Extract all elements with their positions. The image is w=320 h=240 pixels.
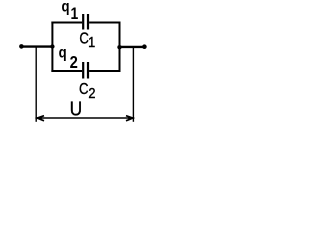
- extension line left: [35, 48, 37, 122]
- junction dot left: [50, 44, 54, 48]
- wire top branch left segment: [51, 22, 82, 24]
- wire right lead: [120, 46, 145, 48]
- capacitor C2: [83, 62, 88, 79]
- wire left vertical: [51, 22, 53, 73]
- svg-text:U: U: [70, 98, 83, 121]
- label q1: [62, 0, 79, 24]
- svg-text:1: 1: [71, 5, 79, 24]
- wire left lead: [21, 45, 53, 47]
- svg-text:q: q: [59, 44, 67, 61]
- left terminal node: [19, 44, 24, 49]
- label C2: [79, 81, 96, 101]
- label q2: [59, 44, 78, 72]
- svg-text:1: 1: [88, 33, 95, 50]
- capacitor C1: [83, 14, 88, 30]
- arrowhead left: [37, 116, 44, 121]
- svg-text:C: C: [79, 81, 89, 98]
- wire right vertical: [119, 22, 121, 73]
- label U: [70, 98, 83, 121]
- wire bottom branch right segment: [89, 70, 120, 72]
- wire top branch right segment: [89, 22, 120, 24]
- label C1: [79, 30, 95, 50]
- svg-text:2: 2: [70, 53, 78, 73]
- dimension line U: [37, 117, 133, 119]
- wire bottom branch left segment: [51, 70, 82, 72]
- extension line right: [132, 48, 134, 122]
- svg-text:q: q: [62, 0, 70, 16]
- svg-text:2: 2: [88, 84, 95, 101]
- right terminal node: [142, 44, 147, 49]
- junction dot right: [117, 45, 121, 49]
- arrowhead right: [126, 116, 133, 121]
